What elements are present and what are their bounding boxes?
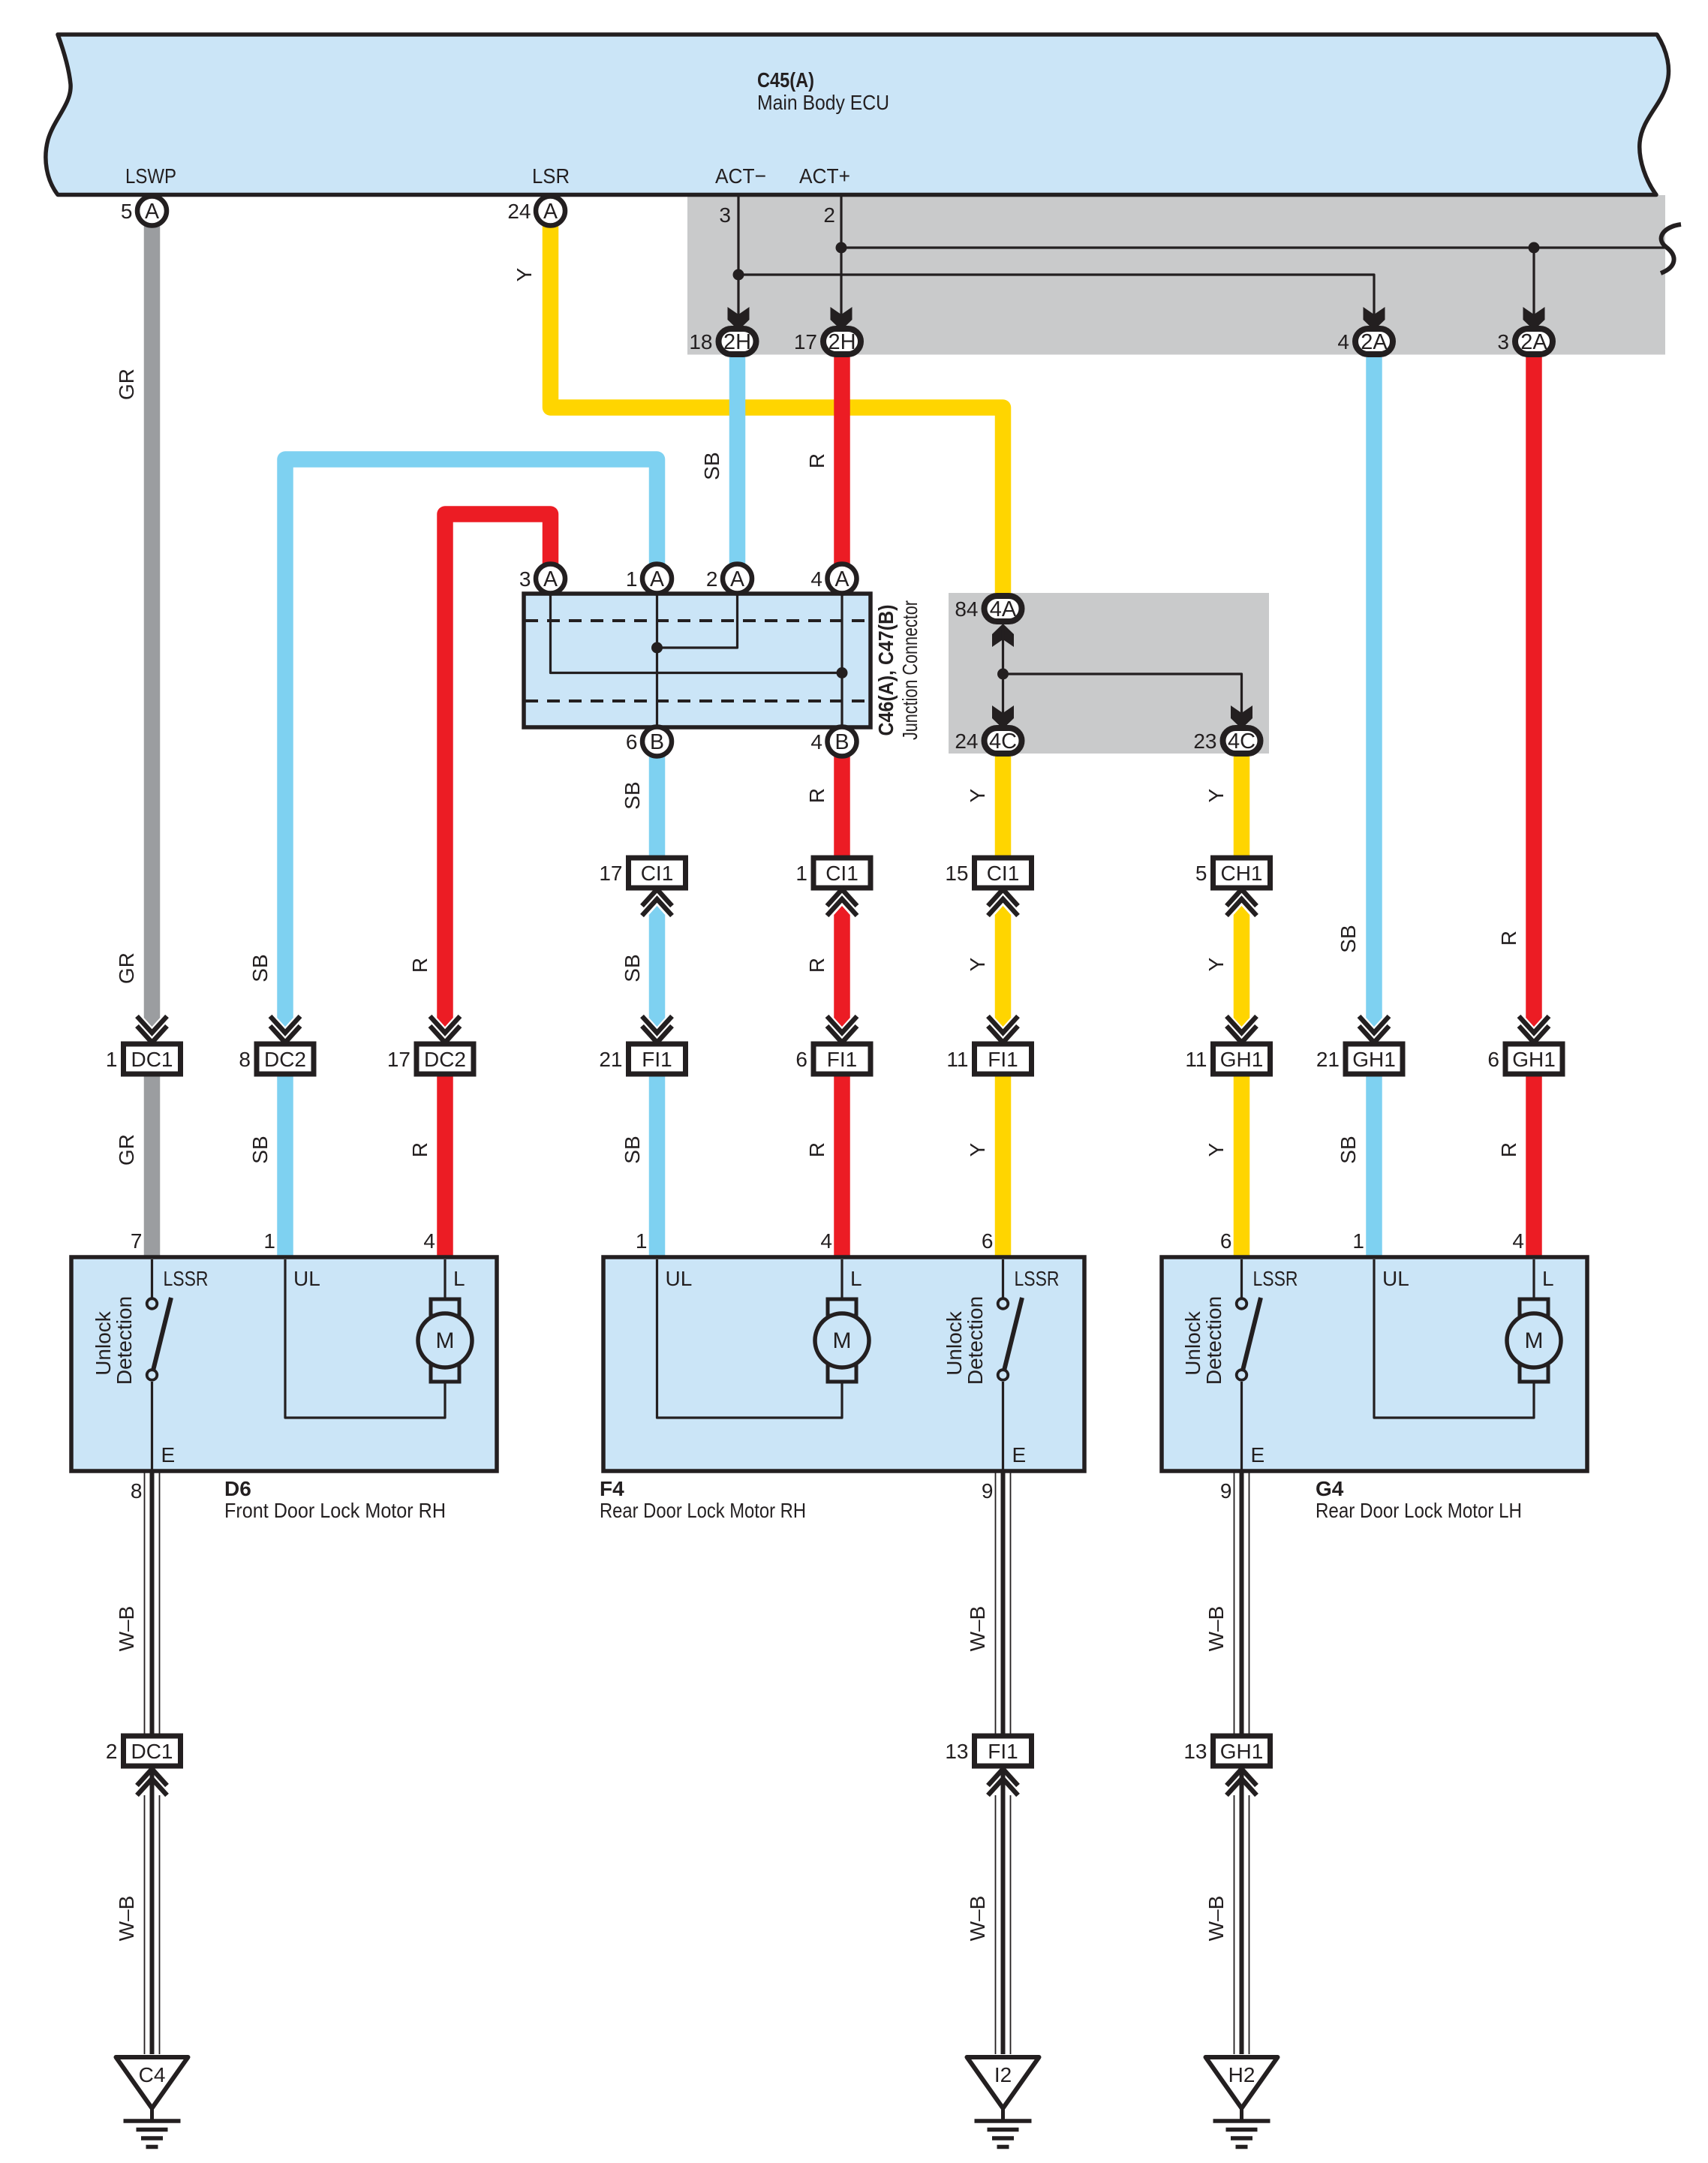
svg-text:L: L bbox=[1542, 1267, 1554, 1290]
svg-text:B: B bbox=[834, 730, 849, 754]
svg-text:4C: 4C bbox=[989, 730, 1017, 754]
svg-text:9: 9 bbox=[982, 1479, 994, 1503]
switch LSSR unlock detection F4 bbox=[998, 1259, 1022, 1473]
svg-text:2A: 2A bbox=[1520, 330, 1547, 354]
svg-text:LSSR: LSSR bbox=[1253, 1267, 1298, 1290]
svg-text:Rear Door Lock Motor LH: Rear Door Lock Motor LH bbox=[1316, 1499, 1522, 1522]
ground H2 bbox=[1206, 2057, 1278, 2147]
svg-text:GR: GR bbox=[115, 952, 138, 984]
svg-text:Junction Connector: Junction Connector bbox=[898, 600, 922, 740]
svg-text:84: 84 bbox=[955, 597, 978, 621]
svg-text:GR: GR bbox=[115, 369, 138, 400]
wire bus lower (ACT- row) bbox=[738, 275, 1374, 319]
connector 17 CI1 bbox=[599, 858, 685, 916]
arrow into 3 2A bbox=[1523, 307, 1545, 330]
svg-text:GH1: GH1 bbox=[1352, 1048, 1396, 1071]
svg-text:R: R bbox=[805, 788, 828, 803]
arrow into 84 4A bbox=[992, 624, 1014, 719]
title F4 bbox=[600, 1477, 806, 1522]
svg-text:SB: SB bbox=[621, 954, 644, 982]
wire UL internal G4 bbox=[1374, 1259, 1534, 1418]
svg-text:LSSR: LSSR bbox=[1015, 1267, 1060, 1290]
label SB wire bbox=[621, 781, 644, 809]
svg-text:Unlock: Unlock bbox=[1181, 1310, 1204, 1376]
connector 17 DC2 bbox=[387, 1016, 474, 1074]
svg-text:W–B: W–B bbox=[966, 1896, 989, 1942]
label SB wire bbox=[248, 1136, 272, 1163]
svg-text:5: 5 bbox=[1195, 862, 1207, 885]
svg-text:2: 2 bbox=[706, 567, 718, 591]
svg-text:4A: 4A bbox=[990, 597, 1017, 621]
label W-B upper C4 bbox=[115, 1606, 138, 1652]
label LSSR G4 bbox=[1253, 1267, 1298, 1290]
connector 18 2H bbox=[689, 329, 756, 354]
svg-text:R: R bbox=[805, 1142, 828, 1157]
junction internal wire 1A-6B bbox=[656, 594, 658, 727]
relay block band 2H/2A bbox=[687, 195, 1665, 355]
svg-text:L: L bbox=[453, 1267, 465, 1290]
label UL D6 bbox=[293, 1267, 320, 1290]
svg-text:8: 8 bbox=[131, 1479, 143, 1503]
junction pin 4 A bbox=[810, 564, 856, 594]
title G4 bbox=[1316, 1477, 1522, 1522]
label W-B lower H2 bbox=[1204, 1896, 1228, 1942]
wire Y 23 4C to CH1 to GH1 to G4 bbox=[1234, 754, 1250, 1259]
door lock motor unit F4 bbox=[603, 1257, 1084, 1471]
junction block band 4A/4C bbox=[949, 593, 1269, 754]
connector 1 DC1 bbox=[106, 1016, 181, 1074]
label Y wire bbox=[966, 957, 989, 971]
svg-text:23: 23 bbox=[1193, 730, 1216, 753]
svg-text:4: 4 bbox=[820, 1229, 832, 1253]
svg-text:17: 17 bbox=[599, 862, 622, 885]
label LSSR F4 bbox=[1015, 1267, 1060, 1290]
svg-text:21: 21 bbox=[599, 1048, 622, 1071]
svg-text:E: E bbox=[161, 1443, 176, 1467]
svg-text:SB: SB bbox=[700, 452, 723, 480]
arrow into 4 2A bbox=[1364, 307, 1385, 330]
svg-text:Main Body ECU: Main Body ECU bbox=[757, 91, 889, 114]
wire SB junction pin 1A loop to DC2 to D6 bbox=[277, 459, 657, 1259]
svg-text:E: E bbox=[1012, 1443, 1027, 1467]
wire W-B GH1 to ground H2 bbox=[1234, 1471, 1249, 2054]
svg-text:SB: SB bbox=[248, 954, 272, 982]
label Y wire bbox=[1204, 957, 1228, 971]
svg-text:R: R bbox=[408, 958, 432, 973]
junction pin 1 A bbox=[626, 564, 672, 594]
connector 21 GH1 bbox=[1316, 1016, 1403, 1074]
svg-text:6: 6 bbox=[626, 730, 638, 754]
svg-text:3: 3 bbox=[1497, 330, 1509, 353]
svg-text:UL: UL bbox=[1382, 1267, 1409, 1290]
svg-text:9: 9 bbox=[1220, 1479, 1232, 1503]
connector 6 FI1 bbox=[795, 1016, 871, 1074]
pin numbers F4 top bbox=[636, 1229, 994, 1253]
label E F4 bbox=[1012, 1443, 1027, 1467]
svg-text:CI1: CI1 bbox=[987, 862, 1020, 885]
svg-text:11: 11 bbox=[1185, 1048, 1207, 1071]
svg-text:C46(A), C47(B): C46(A), C47(B) bbox=[874, 605, 898, 736]
connector 23 4C bbox=[1193, 728, 1260, 754]
arrow into 18 2H bbox=[728, 307, 750, 330]
svg-text:SB: SB bbox=[1337, 1136, 1360, 1163]
svg-text:M: M bbox=[833, 1328, 852, 1353]
svg-text:W–B: W–B bbox=[1204, 1896, 1228, 1942]
motor M F4 bbox=[815, 1259, 869, 1382]
svg-text:R: R bbox=[805, 453, 828, 468]
svg-text:1: 1 bbox=[106, 1048, 118, 1071]
svg-text:2H: 2H bbox=[723, 330, 751, 354]
svg-text:Detection: Detection bbox=[113, 1296, 136, 1385]
svg-text:3: 3 bbox=[719, 203, 731, 227]
door lock motor unit G4 bbox=[1162, 1257, 1587, 1471]
arrow into 24 4C bbox=[992, 705, 1014, 729]
svg-text:I2: I2 bbox=[994, 2063, 1012, 2086]
connector 5 CH1 bbox=[1195, 858, 1270, 916]
label R wire bbox=[408, 1142, 432, 1157]
svg-text:1: 1 bbox=[636, 1229, 648, 1253]
pin number D6 bottom bbox=[131, 1479, 143, 1503]
svg-text:6: 6 bbox=[795, 1048, 807, 1071]
svg-text:CH1: CH1 bbox=[1220, 862, 1262, 885]
title D6 bbox=[224, 1477, 446, 1522]
connector 13 GH1 bbox=[1183, 1736, 1270, 1795]
motor M D6 bbox=[418, 1259, 472, 1382]
ground C4 bbox=[116, 2057, 188, 2147]
svg-text:ACT+: ACT+ bbox=[799, 164, 850, 188]
wire SB 4 2A to GH1 to G4 bbox=[1366, 355, 1382, 1259]
svg-text:Detection: Detection bbox=[1202, 1296, 1225, 1385]
svg-text:Y: Y bbox=[966, 957, 989, 971]
junction dot bus/2A bbox=[1529, 242, 1540, 254]
svg-text:13: 13 bbox=[945, 1740, 968, 1763]
svg-text:18: 18 bbox=[689, 330, 712, 353]
svg-text:SB: SB bbox=[248, 1136, 272, 1163]
svg-text:4C: 4C bbox=[1228, 730, 1255, 754]
svg-text:GH1: GH1 bbox=[1220, 1048, 1264, 1071]
label L G4 bbox=[1542, 1267, 1554, 1290]
junction pin 6 B bbox=[626, 727, 672, 757]
svg-text:4: 4 bbox=[1512, 1229, 1524, 1253]
svg-text:W–B: W–B bbox=[1204, 1606, 1228, 1652]
label R wire bbox=[805, 453, 828, 468]
junction connector C46(A), C47(B) box bbox=[524, 594, 871, 727]
svg-text:C45(A): C45(A) bbox=[757, 68, 814, 92]
wire UL internal F4 bbox=[657, 1259, 843, 1418]
svg-text:R: R bbox=[1497, 931, 1520, 946]
svg-text:7: 7 bbox=[131, 1229, 143, 1253]
label GR wire bbox=[115, 1134, 138, 1166]
switch LSSR unlock detection D6 bbox=[147, 1259, 171, 1473]
connector 13 FI1 bbox=[945, 1736, 1031, 1795]
svg-text:SB: SB bbox=[621, 1136, 644, 1163]
svg-text:CI1: CI1 bbox=[825, 862, 859, 885]
label Y wire bbox=[513, 267, 536, 281]
svg-text:Y: Y bbox=[1204, 957, 1228, 971]
wire R 3 2A to GH1 to G4 bbox=[1526, 355, 1542, 1259]
label E G4 bbox=[1251, 1443, 1265, 1467]
wire ACT+ pin2 vertical bbox=[823, 197, 841, 319]
wire W-B FI1 to ground I2 bbox=[996, 1471, 1011, 2054]
svg-text:3: 3 bbox=[519, 567, 531, 591]
svg-text:FI1: FI1 bbox=[988, 1740, 1018, 1763]
svg-text:6: 6 bbox=[982, 1229, 994, 1253]
label R wire bbox=[408, 958, 432, 973]
svg-text:Unlock: Unlock bbox=[943, 1310, 966, 1376]
svg-text:GH1: GH1 bbox=[1220, 1740, 1264, 1763]
label W-B upper I2 bbox=[966, 1606, 989, 1652]
pin 24 A LSR bbox=[507, 197, 565, 226]
connector 17 2H bbox=[794, 329, 861, 354]
svg-text:2: 2 bbox=[106, 1740, 118, 1763]
svg-text:6: 6 bbox=[1220, 1229, 1232, 1253]
junction dot internal 4A bbox=[837, 667, 848, 678]
connector 6 GH1 bbox=[1487, 1016, 1562, 1074]
label SB wire bbox=[1337, 925, 1360, 952]
svg-text:UL: UL bbox=[666, 1267, 693, 1290]
svg-text:A: A bbox=[543, 200, 558, 224]
pin numbers G4 top bbox=[1220, 1229, 1524, 1253]
svg-text:11: 11 bbox=[946, 1048, 968, 1071]
svg-text:Unlock: Unlock bbox=[92, 1310, 115, 1376]
svg-text:A: A bbox=[543, 567, 558, 591]
svg-text:D6: D6 bbox=[224, 1477, 251, 1500]
junction dot ACT+ bbox=[836, 242, 847, 254]
label SB wire bbox=[621, 1136, 644, 1163]
svg-text:13: 13 bbox=[1183, 1740, 1207, 1763]
svg-text:SB: SB bbox=[1337, 925, 1360, 952]
svg-text:4: 4 bbox=[423, 1229, 435, 1253]
junction pin 3 A bbox=[519, 564, 565, 594]
arrow into 17 2H bbox=[831, 307, 852, 330]
svg-text:UL: UL bbox=[293, 1267, 320, 1290]
wire GR from LSWP to DC1 to D6 bbox=[144, 225, 161, 1259]
svg-text:17: 17 bbox=[794, 330, 817, 353]
svg-text:LSSR: LSSR bbox=[164, 1267, 209, 1290]
label W-B lower I2 bbox=[966, 1896, 989, 1942]
svg-text:DC2: DC2 bbox=[264, 1048, 306, 1071]
motor M G4 bbox=[1507, 1259, 1561, 1382]
connector 1 CI1 bbox=[795, 858, 871, 916]
junction pin 2 A bbox=[706, 564, 752, 594]
label L F4 bbox=[850, 1267, 862, 1290]
svg-text:Y: Y bbox=[1204, 788, 1228, 802]
svg-text:E: E bbox=[1251, 1443, 1265, 1467]
label Y wire bbox=[1204, 788, 1228, 802]
label GR wire bbox=[115, 369, 138, 400]
label SB wire bbox=[621, 954, 644, 982]
svg-text:Y: Y bbox=[1204, 1142, 1228, 1157]
svg-text:24: 24 bbox=[955, 730, 978, 753]
junction dot ACT- bbox=[733, 269, 744, 281]
label UL G4 bbox=[1382, 1267, 1409, 1290]
svg-text:4: 4 bbox=[810, 730, 822, 754]
svg-text:R: R bbox=[408, 1142, 432, 1157]
junction internal wire 4A-4B bbox=[840, 594, 843, 727]
break mark S-curve bbox=[1661, 224, 1681, 273]
label LSSR D6 bbox=[164, 1267, 209, 1290]
wire 4A bus to 23 4C bbox=[1003, 674, 1242, 713]
label R wire bbox=[805, 788, 828, 803]
junction dot internal 1A bbox=[651, 642, 663, 654]
switch LSSR unlock detection G4 bbox=[1237, 1259, 1261, 1473]
svg-text:A: A bbox=[650, 567, 664, 591]
svg-text:FI1: FI1 bbox=[827, 1048, 857, 1071]
wire Y from LSR to 84 4A bbox=[551, 225, 1003, 595]
label R wire bbox=[805, 1142, 828, 1157]
label SB wire bbox=[700, 452, 723, 480]
svg-text:17: 17 bbox=[387, 1048, 410, 1071]
label Unlock Detection G4 bbox=[1181, 1296, 1225, 1385]
svg-text:4: 4 bbox=[1337, 330, 1349, 353]
svg-text:21: 21 bbox=[1316, 1048, 1340, 1071]
svg-text:8: 8 bbox=[239, 1048, 251, 1071]
svg-text:W–B: W–B bbox=[115, 1606, 138, 1652]
label E D6 bbox=[161, 1443, 176, 1467]
svg-text:2: 2 bbox=[823, 203, 835, 227]
label W-B upper H2 bbox=[1204, 1606, 1228, 1652]
label W-B lower C4 bbox=[115, 1896, 138, 1942]
wire SB 18 2H to junction pin 2A bbox=[729, 355, 746, 564]
wire R 17 2H to junction pin 4A bbox=[834, 355, 850, 564]
connector 21 FI1 bbox=[599, 1016, 685, 1074]
svg-text:2A: 2A bbox=[1361, 330, 1388, 354]
svg-text:4: 4 bbox=[810, 567, 822, 591]
wire R junction pin 3A loop to DC2 to D6 bbox=[437, 514, 550, 1259]
label R wire bbox=[1497, 1142, 1520, 1157]
svg-text:1: 1 bbox=[626, 567, 638, 591]
svg-text:A: A bbox=[834, 567, 849, 591]
svg-text:Y: Y bbox=[966, 1142, 989, 1157]
svg-text:15: 15 bbox=[945, 862, 968, 885]
label UL F4 bbox=[666, 1267, 693, 1290]
connector 15 CI1 bbox=[945, 858, 1031, 916]
svg-text:6: 6 bbox=[1487, 1048, 1499, 1071]
label Y wire bbox=[966, 788, 989, 802]
pin number F4 bottom bbox=[982, 1479, 994, 1503]
svg-text:M: M bbox=[436, 1328, 455, 1353]
junction internal wire 2A bbox=[657, 594, 738, 648]
svg-text:C4: C4 bbox=[139, 2063, 166, 2086]
ground I2 bbox=[967, 2057, 1039, 2147]
wire SB junction pin 6B to CI1 to FI1 to F4 bbox=[649, 757, 666, 1259]
svg-text:A: A bbox=[730, 567, 744, 591]
connector 3 2A bbox=[1497, 329, 1553, 354]
svg-text:2H: 2H bbox=[828, 330, 856, 354]
connector 2 DC1 bbox=[106, 1736, 181, 1795]
svg-text:CI1: CI1 bbox=[641, 862, 674, 885]
connector 84 4A bbox=[955, 596, 1021, 621]
svg-text:Detection: Detection bbox=[964, 1296, 987, 1385]
wire Y 24 4C to CI1 to FI1 to F4 bbox=[995, 754, 1012, 1259]
svg-text:A: A bbox=[145, 200, 159, 224]
junction internal wire 3A bbox=[551, 594, 843, 673]
label L D6 bbox=[453, 1267, 465, 1290]
svg-text:LSWP: LSWP bbox=[125, 164, 176, 188]
svg-text:ACT−: ACT− bbox=[715, 164, 766, 188]
label Unlock Detection D6 bbox=[92, 1296, 136, 1385]
junction connector title bbox=[874, 600, 922, 740]
svg-text:FI1: FI1 bbox=[988, 1048, 1018, 1071]
svg-text:SB: SB bbox=[621, 781, 644, 809]
svg-text:Rear Door Lock Motor RH: Rear Door Lock Motor RH bbox=[600, 1499, 806, 1522]
svg-text:L: L bbox=[850, 1267, 862, 1290]
wire R junction pin 4B to CI1 to FI1 to F4 bbox=[834, 757, 850, 1259]
svg-text:B: B bbox=[650, 730, 664, 754]
pin 5 A LSWP bbox=[121, 197, 167, 226]
svg-text:H2: H2 bbox=[1228, 2063, 1255, 2086]
arrow into 23 4C bbox=[1231, 705, 1252, 729]
svg-text:1: 1 bbox=[1352, 1229, 1364, 1253]
ECU C45(A) Main Body ECU band bbox=[46, 35, 1669, 195]
label SB wire bbox=[248, 954, 272, 982]
wire drop to 3 2A bbox=[1532, 248, 1535, 319]
wire bus upper (ACT+ row) bbox=[841, 246, 1664, 248]
wire UL internal D6 bbox=[285, 1259, 445, 1418]
svg-text:24: 24 bbox=[507, 200, 531, 223]
svg-text:Y: Y bbox=[513, 267, 536, 281]
svg-text:W–B: W–B bbox=[966, 1606, 989, 1652]
svg-text:FI1: FI1 bbox=[642, 1048, 672, 1071]
connector 4 2A bbox=[1337, 329, 1393, 354]
svg-text:5: 5 bbox=[121, 200, 133, 223]
wire ACT- pin3 vertical bbox=[719, 197, 738, 319]
label Y wire bbox=[1204, 1142, 1228, 1157]
svg-text:R: R bbox=[805, 958, 828, 973]
svg-text:W–B: W–B bbox=[115, 1896, 138, 1942]
svg-text:GH1: GH1 bbox=[1512, 1048, 1556, 1071]
label GR wire bbox=[115, 952, 138, 984]
svg-text:R: R bbox=[1497, 1142, 1520, 1157]
svg-text:GR: GR bbox=[115, 1134, 138, 1166]
svg-text:1: 1 bbox=[263, 1229, 275, 1253]
pin number G4 bottom bbox=[1220, 1479, 1232, 1503]
wire W-B DC1 to ground C4 bbox=[145, 1471, 160, 2054]
svg-text:1: 1 bbox=[795, 862, 807, 885]
door lock motor unit D6 bbox=[71, 1257, 497, 1471]
label Y wire bbox=[966, 1142, 989, 1157]
svg-text:F4: F4 bbox=[600, 1477, 624, 1500]
svg-text:G4: G4 bbox=[1316, 1477, 1344, 1500]
svg-text:Y: Y bbox=[966, 788, 989, 802]
svg-text:Front Door Lock Motor RH: Front Door Lock Motor RH bbox=[224, 1499, 446, 1522]
svg-text:DC1: DC1 bbox=[131, 1740, 173, 1763]
connector 24 4C bbox=[955, 728, 1021, 754]
label R wire bbox=[1497, 931, 1520, 946]
svg-text:DC1: DC1 bbox=[131, 1048, 173, 1071]
connector 8 DC2 bbox=[239, 1016, 314, 1074]
label R wire bbox=[805, 958, 828, 973]
svg-text:M: M bbox=[1525, 1328, 1544, 1353]
label Unlock Detection F4 bbox=[943, 1296, 987, 1385]
connector 11 FI1 bbox=[946, 1016, 1031, 1074]
junction pin 4 B bbox=[810, 727, 856, 757]
connector 11 GH1 bbox=[1185, 1016, 1270, 1074]
junction dot 4A bus bbox=[997, 669, 1009, 680]
pin numbers D6 top bbox=[131, 1229, 435, 1253]
svg-text:LSR: LSR bbox=[532, 164, 570, 188]
svg-text:DC2: DC2 bbox=[424, 1048, 466, 1071]
label SB wire bbox=[1337, 1136, 1360, 1163]
